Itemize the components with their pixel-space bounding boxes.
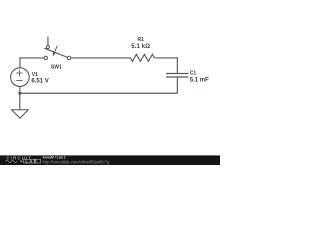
- svg-text:SW1: SW1: [51, 65, 62, 71]
- svg-text:V1: V1: [32, 72, 38, 78]
- svg-text:C1: C1: [190, 71, 197, 77]
- svg-text:6.51 V: 6.51 V: [31, 78, 48, 84]
- svg-text:5.1 mF: 5.1 mF: [190, 78, 209, 84]
- svg-text:LAB: LAB: [25, 159, 38, 164]
- svg-text:R1: R1: [138, 37, 145, 43]
- svg-text:5.1 kΩ: 5.1 kΩ: [131, 44, 150, 50]
- svg-text:http://circuitlab.com/c/trw859: http://circuitlab.com/c/trw859a45c7g: [43, 159, 110, 164]
